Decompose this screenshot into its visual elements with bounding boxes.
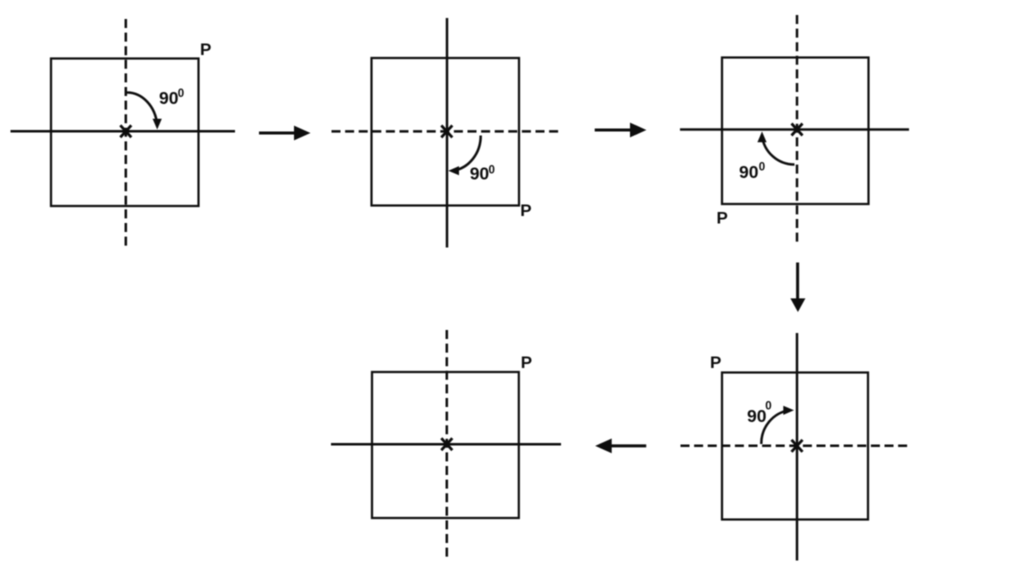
svg-text:P: P [200,40,211,59]
svg-text:90: 90 [159,88,179,108]
svg-text:90: 90 [739,162,759,182]
svg-text:P: P [520,201,531,220]
svg-text:P: P [710,353,721,372]
svg-text:0: 0 [759,161,765,173]
svg-text:90: 90 [470,164,490,184]
svg-text:0: 0 [178,88,184,100]
svg-text:90: 90 [747,406,767,426]
svg-text:0: 0 [765,401,771,413]
svg-text:0: 0 [489,164,495,176]
svg-text:P: P [521,353,532,372]
svg-text:P: P [717,209,728,228]
